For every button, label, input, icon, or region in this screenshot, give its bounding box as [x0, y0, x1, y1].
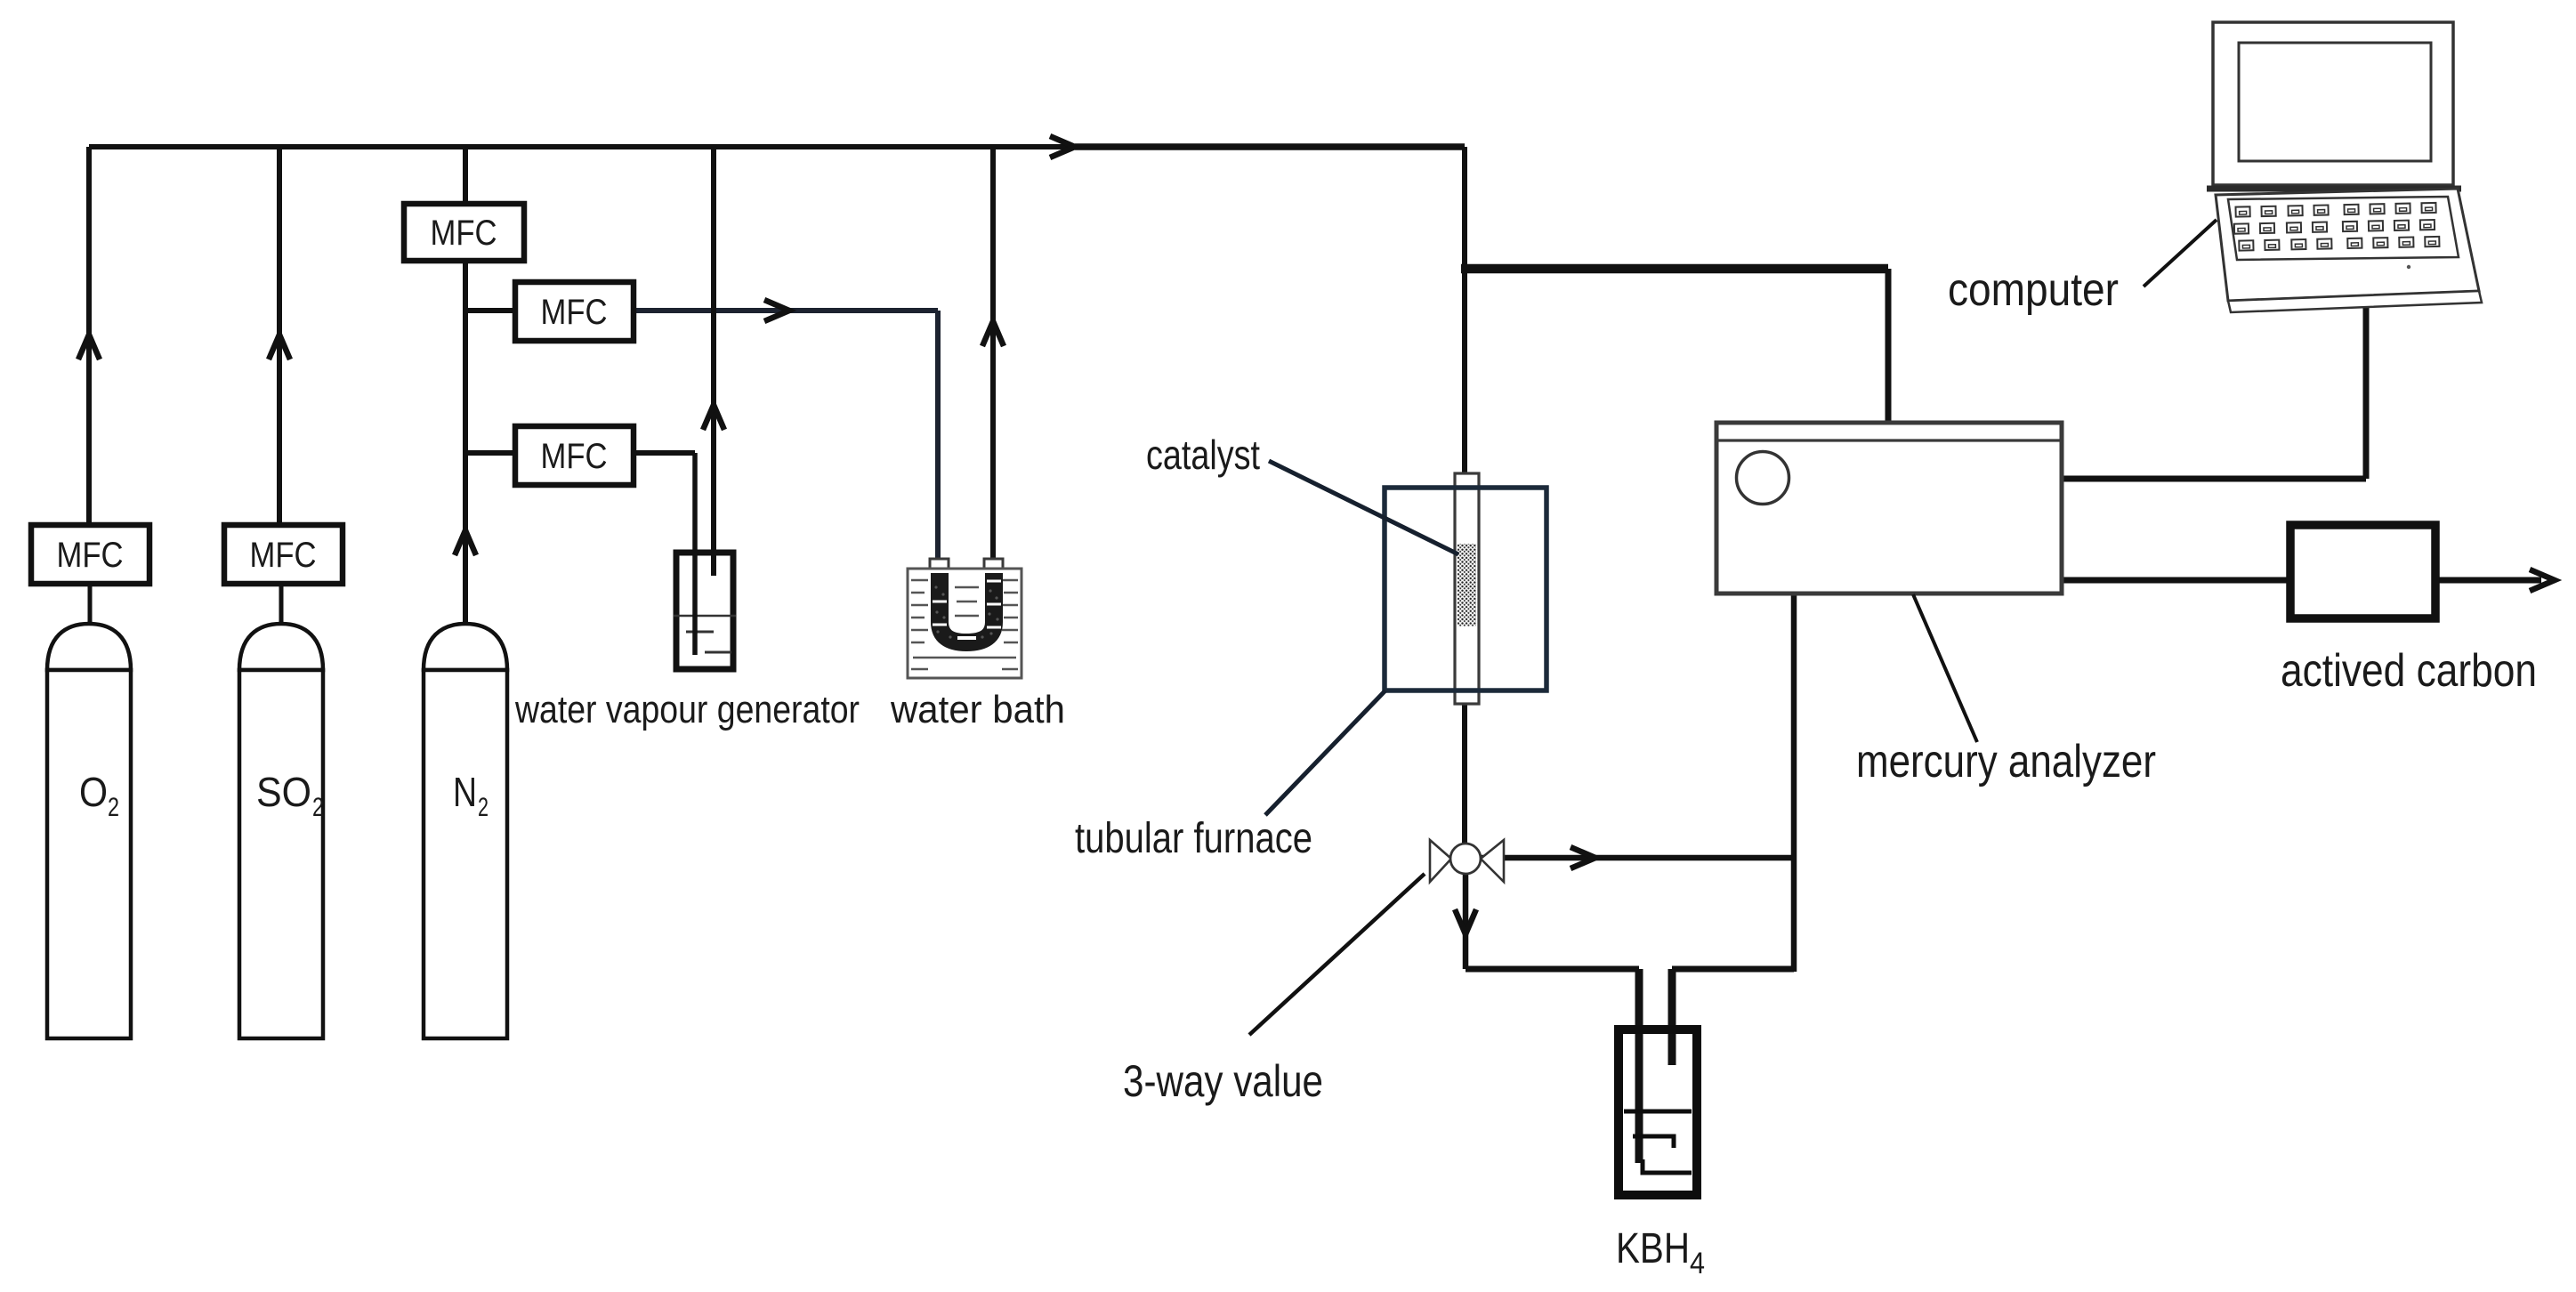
water bath U-tube [940, 573, 994, 642]
MFC box O2 [31, 525, 149, 584]
svg-text:MFC: MFC [57, 536, 124, 575]
svg-text:2: 2 [312, 793, 324, 822]
tubular furnace box [1385, 488, 1546, 690]
leader mercury analyzer [1913, 594, 1977, 742]
wire valve down output [1463, 858, 1469, 969]
wire analyzer upper output [2062, 476, 2366, 482]
mercury analyzer box [1716, 423, 2062, 594]
wire exhaust [2435, 577, 2541, 584]
water bath water dashes [911, 580, 1018, 669]
catalyst stipple [1458, 544, 1476, 626]
mercury analyzer lamp circle [1737, 452, 1789, 505]
wire MFC3 output [634, 450, 695, 456]
svg-text:actived carbon: actived carbon [2281, 645, 2537, 697]
MFC box 2 [515, 282, 634, 341]
laptop mouse dot [2407, 265, 2410, 269]
wire O2 riser [86, 147, 92, 525]
O2 cylinder [47, 624, 131, 1038]
wire furnace feed [1462, 147, 1467, 473]
leader 3-way value [1249, 874, 1425, 1035]
water bath U-tube speckle dots [934, 585, 998, 638]
svg-text:MFC: MFC [541, 293, 608, 332]
svg-text:tubular furnace: tubular furnace [1075, 815, 1312, 862]
wire top manifold [89, 144, 1465, 149]
3-way valve [1430, 840, 1504, 882]
KBH4 liquid lines [1624, 1111, 1692, 1173]
arrow valve right [1571, 847, 1595, 868]
arrow O2 up [78, 335, 100, 359]
svg-text:water vapour generator: water vapour generator [514, 688, 860, 731]
wire MFC2 output [634, 308, 938, 313]
arrow MFC2 right [764, 300, 789, 321]
wire analyzer drain vertical [1791, 594, 1797, 972]
wire wvg inlet inside flask [692, 553, 698, 655]
svg-text:2: 2 [108, 793, 119, 822]
wire branch to MFC3 [465, 450, 515, 456]
wire wvg outlet riser [711, 147, 716, 576]
wire SO2 MFC to cylinder [279, 584, 284, 625]
wire computer cable [2363, 307, 2370, 479]
svg-text:KBH: KBH [1616, 1225, 1690, 1272]
svg-text:O: O [79, 769, 108, 815]
wire branch to MFC2 [465, 308, 515, 313]
arrow valve down [1455, 909, 1476, 934]
wire bath left arm [935, 311, 941, 570]
wire SO2 riser [277, 147, 282, 525]
wire KBH4 outlet tube [1668, 969, 1676, 1065]
svg-text:4: 4 [1690, 1247, 1705, 1280]
water bath collars [930, 559, 1003, 571]
wire analyzer lower output [2062, 577, 2290, 584]
MFC box SO2 [224, 525, 343, 584]
N2 cylinder [424, 624, 507, 1038]
wire KBH4 inlet tube [1635, 969, 1643, 1163]
wire top manifold right segment [1075, 143, 1465, 150]
arrow bath up [982, 321, 1004, 346]
KBH4 flask [1619, 1030, 1697, 1195]
MFC box N2 inline [404, 204, 524, 261]
svg-text:water bath: water bath [890, 688, 1065, 731]
leader catalyst [1269, 461, 1458, 554]
svg-text:N: N [453, 769, 477, 815]
svg-text:MFC: MFC [541, 437, 608, 476]
leader tubular furnace [1265, 690, 1385, 815]
arrow SO2 up [269, 335, 290, 359]
quartz tube [1455, 473, 1479, 704]
wire loop left horizontal [1466, 966, 1639, 973]
arrow wvg up [703, 405, 724, 430]
svg-text:MFC: MFC [431, 214, 497, 253]
svg-text:catalyst: catalyst [1146, 432, 1260, 478]
arrow N2 up [455, 530, 476, 555]
wire bath right arm riser [990, 147, 996, 570]
SO2 cylinder [239, 624, 323, 1038]
svg-text:mercury analyzer: mercury analyzer [1856, 736, 2156, 787]
svg-text:3-way value: 3-way value [1123, 1056, 1323, 1106]
water vapour generator flask [674, 553, 736, 669]
wire N2 riser lower [463, 261, 468, 625]
svg-text:SO: SO [256, 769, 311, 815]
wire analyzer branch horizontal [1461, 264, 1888, 274]
wire analyzer branch vertical [1886, 269, 1892, 422]
wire valve right output [1466, 855, 1794, 861]
wire furnace outlet [1462, 705, 1467, 843]
mercury analyzer header line [1716, 439, 2062, 441]
arrow exhaust right [2530, 569, 2555, 591]
MFC box 3 [515, 426, 634, 485]
water bath U-tube speckle dashes [933, 581, 1001, 638]
wire O2 MFC to cylinder [88, 584, 93, 625]
wire wvg outlet stub [711, 553, 716, 576]
svg-text:2: 2 [478, 793, 489, 822]
wire loop right horizontal [1672, 966, 1794, 973]
svg-text:MFC: MFC [250, 536, 317, 575]
water bath tank [908, 569, 1022, 678]
computer laptop [2207, 22, 2482, 312]
svg-text:computer: computer [1948, 264, 2119, 316]
actived carbon box [2290, 525, 2435, 618]
laptop keys [2233, 203, 2439, 251]
leader computer [2144, 220, 2217, 287]
wire wvg inlet tube [692, 453, 698, 655]
wire N2 riser upper [463, 147, 468, 204]
arrow manifold right [1050, 136, 1075, 157]
